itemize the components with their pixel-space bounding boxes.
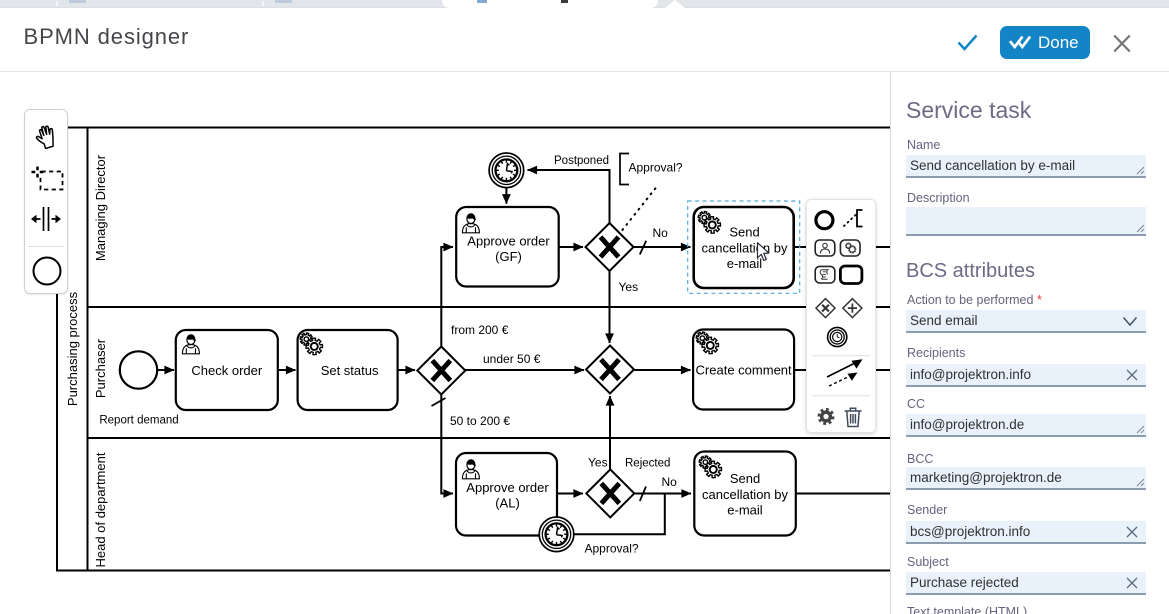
pad connect tool [827, 359, 863, 386]
pad script task [815, 266, 835, 283]
sequence flow timer T2 loop to junction [574, 495, 665, 535]
sequence flow Send cancellation 2 out right [796, 493, 891, 495]
pad service task [840, 240, 860, 256]
svg-text:Approval?: Approval? [585, 542, 639, 556]
association dotted to gateway G4 [622, 186, 657, 230]
pad divider 2 [812, 395, 870, 397]
mouse cursor [756, 242, 773, 264]
lane Head of department [93, 452, 108, 567]
svg-text:Check order: Check order [191, 363, 262, 378]
svg-text:Set status: Set status [321, 363, 379, 378]
svg-text:e-mail: e-mail [727, 503, 763, 518]
task Approve order AL (user) [456, 453, 557, 536]
header bar [0, 8, 1169, 72]
favicon tab 1 [69, 0, 86, 3]
lane divider 1 [88, 306, 891, 308]
lane Purchaser [93, 338, 108, 398]
sequence flow under 50 to gateway G2 [466, 352, 585, 370]
gateway G1 [417, 347, 465, 395]
close X [1113, 34, 1131, 53]
pad user task [815, 240, 835, 256]
svg-text:No: No [653, 226, 669, 240]
create start event [32, 256, 62, 286]
svg-text:Send: Send [729, 225, 759, 240]
sequence flow Set status to gateway G1 [398, 369, 415, 371]
sequence flow 50 to 200 to Approve order AL (default, slash) [432, 395, 511, 494]
sequence flow timer T1 down to Approve order GF [505, 188, 507, 204]
sequence flow gateway G4 No to Send cancellation 1 (default, slash) [634, 226, 691, 255]
svg-text:cancellation by: cancellation by [702, 487, 788, 502]
svg-text:Rejected: Rejected [625, 458, 670, 470]
svg-text:Purchasing process: Purchasing process [65, 291, 80, 406]
sequence flow Approve order GF to gateway G4 [559, 246, 583, 248]
pad end event [816, 212, 833, 229]
svg-text:from 200 €: from 200 € [451, 323, 509, 337]
lane Managing Director [93, 154, 108, 261]
palette separator [28, 246, 64, 247]
active tab favicon [477, 0, 487, 3]
sequence flow Send cancellation 1 out right [794, 246, 890, 248]
properties panel [890, 72, 1169, 614]
svg-text:cancellation by: cancellation by [702, 240, 788, 255]
pad gateway X [816, 299, 835, 318]
svg-text:50 to 200 €: 50 to 200 € [450, 414, 510, 428]
sequence flow Postponed gateway G4 to timer T1 [528, 155, 610, 223]
gateway G2 [586, 346, 634, 394]
pad gateway plus [843, 299, 862, 318]
task Send cancellation 2 (service) [694, 452, 796, 536]
sequence flow start to Check order [158, 369, 175, 371]
task Approve order GF (user) [456, 207, 559, 287]
hand tool [34, 123, 60, 149]
Done button [1000, 26, 1090, 59]
svg-text:Report demand: Report demand [99, 415, 178, 427]
pad trash [845, 408, 862, 426]
timer event T2 boundary [539, 517, 574, 552]
start event [99, 351, 178, 426]
sequence flow gateway G3 No to Send cancellation 2 (default, slash) [634, 475, 691, 501]
sequence flow Create comment out right [794, 369, 890, 371]
tab separator 1 [56, 1, 58, 6]
sequence flow Check order to Set status [278, 369, 296, 371]
active tab title text top [561, 0, 568, 3]
pad blank task [840, 266, 862, 284]
text annotation Approval? lane 1 [620, 154, 683, 185]
svg-text:Send: Send [730, 471, 760, 486]
space tool [30, 206, 62, 232]
svg-text:Postponed: Postponed [554, 155, 609, 167]
svg-text:Head of department: Head of department [93, 452, 108, 567]
timer event T1 [489, 153, 524, 188]
svg-text:Approval?: Approval? [629, 161, 683, 175]
pad intermediate event [828, 327, 847, 346]
svg-text:(GF): (GF) [495, 249, 522, 264]
svg-text:Managing Director: Managing Director [93, 154, 108, 261]
sequence flow Approve order AL to gateway G3 [558, 493, 583, 495]
sequence flow gateway G4 Yes down to gateway G2 [610, 271, 639, 343]
check icon [957, 34, 978, 52]
sequence flow gateway G3 Yes up to gateway G2 [588, 396, 670, 470]
task Create comment (service) [693, 330, 794, 410]
lane divider 2 [88, 437, 891, 439]
svg-text:Approve order: Approve order [467, 234, 550, 249]
svg-text:under 50 €: under 50 € [483, 352, 541, 366]
svg-text:Yes: Yes [619, 280, 639, 294]
svg-text:No: No [662, 475, 678, 489]
lasso tool [31, 165, 65, 193]
task Check order [176, 330, 278, 410]
gateway G3 [586, 469, 634, 517]
svg-text:(AL): (AL) [495, 496, 520, 511]
selection box around Send cancellation 1 [688, 201, 800, 293]
browser tab strip sliver [0, 0, 1169, 8]
pad divider 1 [812, 355, 870, 357]
task Set status (service) [298, 330, 398, 410]
white notch [665, 0, 685, 8]
svg-text:Purchaser: Purchaser [93, 338, 108, 398]
gateway G4 [586, 223, 634, 271]
active white tab [442, 0, 658, 8]
sequence flow from 200 to Approve order GF [441, 247, 508, 346]
svg-text:Yes: Yes [588, 456, 608, 470]
BPMN diagram canvas [0, 72, 890, 614]
context pad popup [806, 199, 876, 433]
pad text annotation [844, 210, 863, 227]
svg-text:Create comment: Create comment [696, 363, 792, 378]
tab separator 2 [262, 1, 264, 6]
sequence flow gateway G2 to Create comment [634, 369, 690, 371]
svg-text:Approve order: Approve order [466, 480, 549, 495]
pool Purchasing process [57, 128, 1057, 571]
task Send cancellation 1 (service, selected) [694, 207, 794, 288]
pad settings gear [817, 408, 834, 425]
favicon tab 2 [275, 0, 292, 3]
palette [24, 109, 68, 294]
